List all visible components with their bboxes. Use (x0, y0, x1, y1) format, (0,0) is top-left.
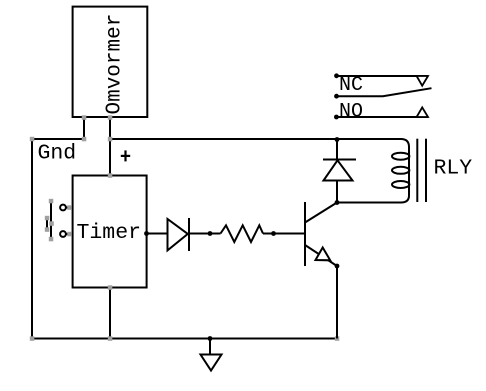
wire: Timer bottom pin down (109, 288, 111, 339)
contact NC line (337, 75, 429, 77)
junction: bottom Timer tee (108, 336, 113, 341)
relay RLY coil loop 3 (392, 181, 409, 188)
node: common pin (334, 94, 339, 99)
flyback diode D2 triangle (324, 160, 353, 180)
junction: + tee (108, 137, 113, 142)
junction: button stem bottom (45, 227, 50, 232)
wire: diode to resistor (189, 233, 221, 235)
wire: bottom horizontal rail (32, 338, 337, 340)
wire: Omvormer left pin down (83, 117, 85, 139)
wire: Omvormer right pin down (109, 117, 111, 139)
junction square markers (gray) (30, 115, 340, 340)
node: Timer output (144, 231, 149, 236)
junction: bottom-right corner (335, 336, 340, 341)
wire: Gnd horizontal segment (32, 138, 84, 140)
label + (121, 150, 130, 161)
diode D1 triangle (168, 219, 188, 250)
diode D1 cathode bar (188, 218, 190, 251)
pushbutton S1 contact circle bottom (60, 231, 66, 237)
contact NC end triangle (417, 76, 428, 86)
junction: bottom-left corner (30, 336, 35, 341)
junction: Timer bottom pin (108, 285, 113, 290)
node: diode-resistor (208, 231, 213, 236)
relay RLY core line 1 (416, 139, 418, 202)
transistor Q1 emitter arrow (316, 248, 331, 261)
wire: emitter down (336, 266, 338, 339)
wire: Timer output to diode (147, 233, 168, 235)
wire: stub circle top to Timer (66, 207, 73, 209)
svg-text:Omvormer: Omvormer (104, 14, 127, 115)
wire: left vertical rail (31, 138, 33, 339)
node: top wire / flyback cathode (335, 137, 340, 142)
wire: stub circle bottom to Timer (66, 233, 73, 235)
junction: Omvormer right pin (108, 115, 113, 120)
timer box U2 (Timer) (73, 176, 147, 288)
node: emitter (335, 264, 340, 269)
flyback diode D2 anode stem (336, 181, 338, 203)
pushbutton S1 actuator bar (50, 201, 52, 239)
svg-text:RLY: RLY (434, 157, 473, 181)
svg-text:Timer: Timer (77, 221, 142, 245)
contact NO end triangle (417, 107, 428, 117)
ground stem (209, 339, 211, 355)
resistor R1 zigzag (221, 225, 264, 242)
pushbutton S1 button stem (46, 220, 48, 228)
node: collector / coil bottom (335, 200, 340, 205)
contact common arm (337, 88, 432, 96)
relay RLY coil loop 1 (392, 153, 409, 160)
junction: button stem middle (49, 221, 54, 226)
node: NC pin (334, 73, 339, 78)
transistor Q1 base bar (304, 202, 306, 266)
converter box U1 (Omvormer) (73, 7, 148, 117)
ground symbol (201, 355, 222, 371)
relay RLY core line 2 (425, 139, 427, 202)
flyback diode D2 cathode bar (323, 159, 356, 161)
junction: Gnd corner (30, 137, 35, 142)
node: resistor-base (271, 231, 276, 236)
wire: + down to Timer (109, 139, 111, 175)
junction: stub top (67, 205, 72, 210)
wire: + top horizontal rail to relay (110, 139, 409, 203)
transistor Q1 emitter line (305, 245, 337, 266)
relay RLY coil loop 2 (392, 167, 409, 174)
node dots (black) (144, 73, 339, 341)
wire: resistor to transistor base (263, 233, 305, 235)
junction: button stem top (45, 216, 50, 221)
pushbutton S1 contact circle top (60, 205, 66, 211)
contact NO line (337, 116, 429, 118)
junction: stub bottom (67, 232, 72, 237)
transistor Q1 collector line (305, 203, 337, 223)
junction: Omvormer left pin (82, 115, 87, 120)
flyback diode D2 cathode stem (336, 140, 338, 161)
node: ground tap (208, 336, 213, 341)
svg-text:Gnd: Gnd (38, 141, 77, 165)
svg-text:NO: NO (339, 100, 363, 123)
junction: button bar bottom (49, 237, 54, 242)
junction: button bar top (49, 199, 54, 204)
junction: Timer top pin (108, 173, 113, 178)
node: NO pin (334, 115, 339, 120)
svg-text:NC: NC (339, 74, 363, 97)
junction: Gnd bend (82, 137, 87, 142)
